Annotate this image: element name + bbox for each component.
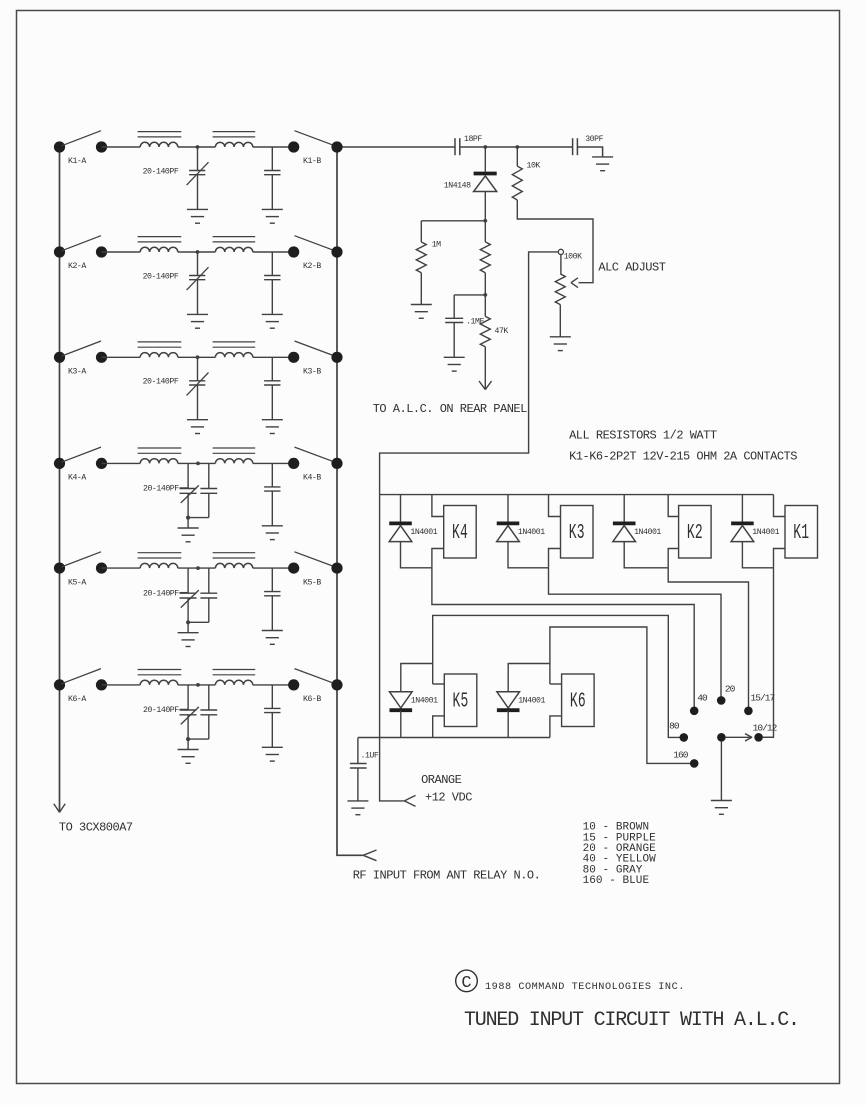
wire 10K to wiper	[517, 200, 593, 283]
svg-text:1988 COMMAND TECHNOLOGIES INC.: 1988 COMMAND TECHNOLOGIES INC.	[485, 982, 685, 993]
ground	[178, 527, 199, 529]
node K5-A contact	[96, 563, 107, 574]
variable capacitor K6 20-140PF	[187, 685, 189, 710]
relay contact K5-B switch arm	[295, 552, 336, 567]
node K5-B contact	[288, 563, 299, 574]
svg-text:10/12: 10/12	[753, 722, 778, 733]
diode 1N4001 K5	[390, 692, 413, 708]
svg-text:K6-B: K6-B	[303, 695, 321, 704]
svg-text:K1-A: K1-A	[68, 157, 86, 166]
inductor K2 input coil	[140, 247, 178, 252]
relay contact K1-B switch arm	[295, 131, 336, 146]
arrow to rear panel	[479, 381, 485, 390]
node K1-B contact	[288, 141, 299, 152]
wire K2 bottom pin	[668, 549, 678, 568]
wire pole to ground	[720, 742, 722, 801]
inductor K1 input coil core	[138, 131, 182, 133]
svg-text:ALL RESISTORS 1/2 WATT: ALL RESISTORS 1/2 WATT	[569, 429, 717, 443]
inductor K2 output coil	[215, 247, 252, 252]
svg-text:1N4001: 1N4001	[634, 528, 661, 537]
arrow +12 VDC connector	[404, 795, 415, 801]
svg-text:18PF: 18PF	[464, 135, 482, 144]
svg-text:1N4001: 1N4001	[752, 528, 779, 537]
ground	[550, 336, 571, 338]
node K1-B bus junction	[331, 141, 342, 152]
relay contact K3-B switch arm	[295, 341, 336, 356]
capacitor K4 padder fixed	[208, 463, 210, 488]
node diode junction	[483, 145, 487, 149]
svg-text:1N4001: 1N4001	[410, 528, 437, 537]
node parallel join	[186, 516, 190, 520]
wire to 1M	[421, 220, 485, 222]
ground	[262, 630, 283, 632]
svg-text:ORANGE: ORANGE	[421, 773, 462, 787]
wire pot to +12 feed	[380, 252, 559, 801]
arrow pot wiper	[571, 278, 578, 283]
svg-text:160: 160	[673, 749, 689, 760]
inductor K1 input coil	[140, 142, 178, 147]
wire K3 route to 20	[549, 568, 722, 701]
svg-text:20-140PF: 20-140PF	[143, 589, 179, 598]
svg-text:15/17: 15/17	[751, 693, 775, 704]
svg-text:100K: 100K	[564, 253, 582, 262]
svg-text:20-140PF: 20-140PF	[143, 272, 179, 281]
node K6-B bus junction	[331, 679, 342, 690]
relay contact K6-A switch arm	[62, 669, 102, 684]
wire to contact B	[253, 684, 294, 686]
inductor K3 output coil core	[213, 341, 256, 343]
wire K5 bottom pin	[433, 716, 445, 738]
node coil junction	[196, 250, 200, 254]
wire between coils	[178, 356, 216, 358]
wire K1 top pin	[774, 495, 786, 517]
node K4-B bus junction	[331, 458, 342, 469]
svg-text:40: 40	[697, 693, 708, 704]
arrow pole arm	[745, 734, 752, 738]
wire from contact to coil	[102, 146, 141, 148]
wire parallel join	[188, 621, 209, 623]
wire K2 route to 15/17	[668, 568, 748, 711]
svg-text:TUNED INPUT CIRCUIT WITH A.L.C: TUNED INPUT CIRCUIT WITH A.L.C.	[464, 1009, 799, 1032]
svg-text:K4-A: K4-A	[68, 474, 86, 483]
inductor K4 input coil core	[138, 447, 182, 449]
wire diode anode K6	[508, 664, 550, 692]
capacitor K6 padder fixed	[208, 685, 210, 710]
svg-text:1N4148: 1N4148	[444, 182, 471, 191]
ground	[187, 208, 208, 210]
diode 1N4148	[484, 147, 486, 172]
inductor K4 output coil	[215, 459, 252, 464]
inductor K2 output coil core	[213, 236, 256, 238]
inductor K3 output coil	[215, 353, 252, 358]
inductor K5 input coil core	[138, 552, 182, 554]
svg-text:+12 VDC: +12 VDC	[425, 791, 472, 805]
wire from contact to coil	[102, 462, 141, 464]
diode 1N4001 K2	[613, 526, 636, 542]
wire diode cathode	[507, 710, 509, 737]
wire 10/12 to K1 route	[763, 736, 774, 738]
relay contact K5-A switch arm	[62, 552, 102, 567]
wire K3 bottom pin	[549, 549, 561, 568]
svg-text:K6: K6	[570, 691, 586, 714]
wire K1 bottom pin	[774, 549, 786, 568]
svg-text:47K: 47K	[495, 327, 509, 336]
inductor K5 input coil	[140, 563, 178, 568]
svg-text:20-140PF: 20-140PF	[143, 167, 179, 176]
relay contact K1-A switch arm	[62, 131, 102, 146]
capacitor K2 output fixed	[271, 252, 273, 276]
ground	[187, 419, 208, 421]
wire K5 route to 80	[433, 615, 680, 737]
node K2-B contact	[288, 246, 299, 257]
inductor K6 output coil	[215, 680, 252, 685]
capacitor K5 output fixed	[271, 568, 273, 592]
svg-text:ALC ADJUST: ALC ADJUST	[598, 260, 665, 274]
ground	[347, 800, 368, 802]
node K2-B bus junction	[331, 246, 342, 257]
node K4-A contact	[96, 458, 107, 469]
relay contact K3-A switch arm	[62, 341, 102, 356]
node K5-A bus junction	[54, 563, 65, 574]
inductor K1 output coil	[215, 142, 252, 147]
svg-text:K3-B: K3-B	[303, 368, 321, 377]
arrow RF input connector	[363, 850, 376, 855]
node K6-A bus junction	[54, 679, 65, 690]
node 10K junction	[515, 145, 519, 149]
diode 1N4001 K6 cathode bar	[497, 708, 520, 712]
node K3-A bus junction	[54, 352, 65, 363]
wire diode cathode	[400, 710, 402, 737]
node K3-B bus junction	[331, 352, 342, 363]
svg-text:K2: K2	[687, 522, 703, 545]
wire diode anode	[742, 542, 773, 568]
inductor K2 input coil core	[138, 236, 182, 238]
label leader line	[180, 592, 189, 594]
ground	[262, 208, 283, 210]
ground	[187, 313, 208, 315]
potentiometer 100K	[560, 255, 562, 274]
node K3-A contact	[96, 352, 107, 363]
wire to contact B	[253, 251, 294, 253]
svg-text:K5: K5	[453, 691, 469, 714]
wire between coils	[178, 462, 216, 464]
label leader line	[180, 708, 189, 710]
ground	[262, 525, 283, 527]
svg-text:C: C	[461, 974, 471, 993]
svg-text:1N4001: 1N4001	[518, 528, 545, 537]
wire K2 top pin	[668, 495, 678, 517]
resistor 10K	[516, 147, 518, 166]
capacitor .1MF	[453, 295, 455, 318]
variable capacitor K2 20-140PF	[197, 252, 199, 276]
node K2-A contact	[96, 246, 107, 257]
wire right bus from K1-B to RF input	[337, 147, 363, 855]
relay coil K2	[679, 506, 712, 559]
svg-text:K4: K4	[452, 522, 468, 545]
diode 1N4001 K1 cathode bar	[731, 522, 754, 526]
svg-text:20-140PF: 20-140PF	[143, 706, 179, 715]
wire diode anode	[508, 542, 549, 568]
inductor K6 input coil core	[138, 669, 182, 671]
resistor 1M	[420, 221, 422, 242]
node K1-A contact	[96, 141, 107, 152]
svg-text:RF INPUT FROM ANT RELAY N.O.: RF INPUT FROM ANT RELAY N.O.	[353, 869, 541, 883]
resistor 47K	[484, 295, 486, 317]
ground	[711, 800, 732, 802]
wire to contact B	[253, 462, 294, 464]
ground	[592, 156, 613, 158]
wire K4 coil feed	[400, 495, 402, 522]
wire to .1MF	[454, 294, 485, 296]
node 10/12	[754, 733, 763, 742]
wire from contact to coil	[102, 567, 141, 569]
diode 1N4001 K3 cathode bar	[497, 522, 520, 526]
diode 1N4001 K4 cathode bar	[389, 522, 412, 526]
wire K4 bottom pin	[432, 549, 444, 568]
relay coil K5	[444, 674, 477, 727]
svg-text:K4-B: K4-B	[303, 474, 321, 483]
relay contact K2-B switch arm	[295, 236, 336, 251]
svg-text:20-140PF: 20-140PF	[143, 378, 179, 387]
svg-text:K5-A: K5-A	[68, 578, 86, 587]
wire K6 route to 160	[550, 627, 690, 763]
inductor K3 input coil core	[138, 341, 182, 343]
ground	[262, 313, 283, 315]
wire K3 coil feed	[507, 495, 509, 522]
svg-text:TO 3CX800A7: TO 3CX800A7	[59, 820, 133, 834]
svg-text:160 - BLUE: 160 - BLUE	[583, 875, 650, 887]
node filter junction	[483, 293, 487, 297]
svg-text:10K: 10K	[527, 162, 541, 171]
capacitor K4 output fixed	[271, 463, 273, 487]
ground	[411, 304, 432, 306]
node parallel join	[186, 737, 190, 741]
inductor K6 input coil	[140, 680, 178, 685]
capacitor K3 output fixed	[271, 357, 273, 381]
node 40	[690, 707, 699, 716]
inductor K3 input coil	[140, 353, 178, 358]
wire to contact B	[253, 356, 294, 358]
wire to contact B	[253, 146, 294, 148]
svg-text:1N4001: 1N4001	[518, 696, 545, 705]
wire	[577, 147, 602, 157]
capacitor 18PF	[454, 138, 456, 155]
svg-text:K1: K1	[793, 522, 809, 545]
wire from contact to coil	[102, 251, 141, 253]
node 15/17	[744, 707, 753, 716]
svg-text:K5-B: K5-B	[303, 578, 321, 587]
wire diode anode K5	[401, 664, 433, 692]
wire diode anode	[624, 542, 668, 568]
wire between coils	[178, 567, 216, 569]
diode 1N4001 K1	[731, 526, 754, 542]
node 160	[690, 759, 699, 768]
wire K2 coil feed	[623, 495, 625, 522]
variable capacitor K4 20-140PF	[187, 463, 189, 488]
arrow to 3CX800A7	[59, 804, 61, 812]
wire parallel join	[188, 738, 209, 740]
svg-text:K1-B: K1-B	[303, 157, 321, 166]
label leader line	[180, 487, 189, 489]
node K4-A bus junction	[54, 458, 65, 469]
wire between coils	[178, 251, 216, 253]
node parallel join	[186, 620, 190, 624]
wire	[460, 146, 573, 148]
wire K4 top pin	[432, 495, 444, 517]
diode 1N4001 K4	[389, 526, 412, 542]
diode 1N4001 K5 cathode bar	[390, 708, 413, 712]
ground	[178, 632, 199, 634]
relay contact K6-B switch arm	[295, 669, 336, 684]
node coil junction	[196, 683, 200, 687]
node coil junction	[196, 462, 200, 466]
node K5-B bus junction	[331, 563, 342, 574]
inductor K6 output coil core	[213, 669, 256, 671]
inductor K4 output coil core	[213, 447, 256, 449]
relay coil K6	[562, 674, 595, 727]
wire top output to ALC network	[337, 146, 455, 148]
svg-text:20: 20	[725, 684, 736, 695]
diode 1N4001 K2 cathode bar	[613, 522, 636, 526]
wire K6 bottom pin	[550, 716, 562, 738]
wire to contact B	[253, 567, 294, 569]
wire between coils	[178, 684, 216, 686]
wire K5 top pin	[433, 683, 445, 685]
svg-text:1M: 1M	[432, 241, 441, 250]
wire from contact to coil	[102, 684, 141, 686]
ground	[178, 749, 199, 751]
svg-text:TO A.L.C. ON REAR PANEL: TO A.L.C. ON REAR PANEL	[373, 402, 527, 416]
copyright symbol	[456, 970, 478, 992]
ground	[444, 356, 465, 358]
capacitor K1 output fixed	[271, 147, 273, 171]
inductor K1 output coil core	[213, 131, 256, 133]
relay coil K3	[561, 506, 594, 559]
potentiometer 100K terminal	[558, 249, 563, 254]
ground	[262, 746, 283, 748]
svg-text:K3-A: K3-A	[68, 368, 86, 377]
wire pole arm to 10/12	[726, 736, 753, 738]
svg-text:K1-K6-2P2T 12V-215 OHM 2A CONT: K1-K6-2P2T 12V-215 OHM 2A CONTACTS	[569, 449, 797, 463]
diode 1N4001 K3	[497, 526, 520, 542]
relay coil K4	[444, 506, 477, 559]
wire left bus to 3CX800A7	[59, 147, 61, 804]
capacitor K6 output fixed	[271, 685, 273, 709]
node K6-B contact	[288, 679, 299, 690]
wire +12 bottom bus	[358, 737, 550, 739]
ground	[262, 419, 283, 421]
node coil junction	[196, 566, 200, 570]
variable capacitor K3 20-140PF	[197, 357, 199, 381]
relay contact K2-A switch arm	[62, 236, 102, 251]
inductor K5 output coil core	[213, 552, 256, 554]
svg-text:K2-B: K2-B	[303, 262, 321, 271]
node K4-B contact	[288, 458, 299, 469]
svg-text:K3: K3	[569, 522, 585, 545]
wire K3 top pin	[549, 495, 561, 517]
svg-text:.1UF: .1UF	[361, 752, 379, 761]
svg-text:30PF: 30PF	[585, 135, 603, 144]
node coil junction	[196, 355, 200, 359]
svg-text:1N4001: 1N4001	[411, 696, 438, 705]
inductor K5 output coil	[215, 563, 252, 568]
diode 1N4001 K6	[497, 692, 520, 708]
wire +12 top bus	[380, 494, 774, 496]
node coil junction	[196, 145, 200, 149]
node K6-A contact	[96, 679, 107, 690]
variable capacitor K1 20-140PF	[197, 147, 199, 171]
capacitor .1UF	[357, 738, 359, 764]
wire K1 route to 10/12	[763, 568, 774, 738]
wire to rear panel	[484, 347, 486, 390]
variable capacitor K5 20-140PF	[187, 568, 189, 593]
wire from contact to coil	[102, 356, 141, 358]
capacitor K5 padder fixed	[208, 568, 210, 593]
svg-text:80: 80	[669, 720, 680, 731]
relay contact K4-A switch arm	[62, 447, 102, 462]
wire between coils	[178, 146, 216, 148]
node K2-A bus junction	[54, 246, 65, 257]
svg-text:K2-A: K2-A	[68, 262, 86, 271]
svg-text:K6-A: K6-A	[68, 695, 86, 704]
wire diode anode	[401, 542, 432, 568]
relay contact K4-B switch arm	[295, 447, 336, 462]
wire K1 coil feed	[741, 495, 743, 522]
relay coil K1	[785, 506, 818, 559]
node 80	[680, 733, 689, 742]
node K3-B contact	[288, 352, 299, 363]
resistor detector series	[484, 221, 486, 242]
node K1-A bus junction	[54, 141, 65, 152]
wire parallel join	[188, 517, 209, 519]
node 20	[717, 696, 726, 705]
wire K4 route to 40	[432, 568, 694, 711]
inductor K4 input coil	[140, 459, 178, 464]
node switch pole	[717, 733, 726, 742]
node detector junction	[483, 219, 487, 223]
diode 1N4148 cathode bar	[474, 172, 497, 176]
capacitor 30PF	[572, 138, 574, 155]
svg-text:20-140PF: 20-140PF	[143, 485, 179, 494]
wire K6 top pin	[550, 683, 562, 685]
